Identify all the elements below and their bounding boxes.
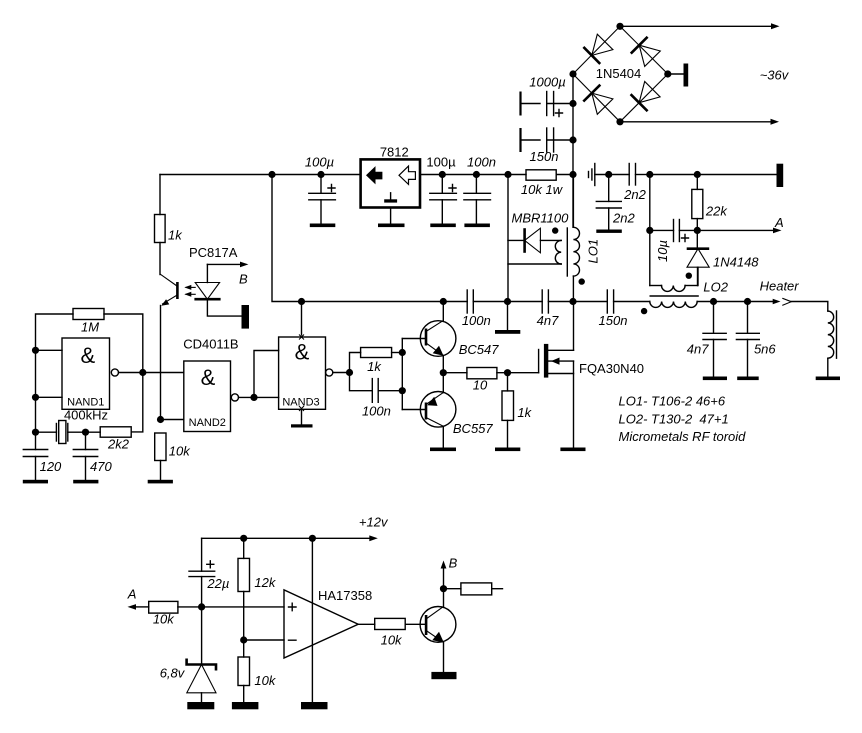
resistor 22k (692, 175, 703, 231)
ground: under 120 (23, 480, 48, 484)
capacitor 5n6 (output) (736, 302, 759, 377)
capacitor 4n7 (series on rail) (508, 290, 574, 313)
svg-text:10k: 10k (153, 612, 175, 627)
label 1k (driver) (367, 359, 382, 374)
op-amp U HA17358 (284, 590, 358, 658)
label B (bottom) (449, 556, 458, 571)
label 2n2 (series) (623, 187, 646, 202)
node: NAND1 output / feedback (139, 369, 146, 376)
inductor LO2 lower winding (series on rail) (650, 302, 774, 308)
svg-text:1N4148: 1N4148 (713, 255, 759, 270)
capacitor 1000u reservoir (521, 92, 574, 117)
svg-text:12k: 12k (254, 575, 276, 590)
label NAND1 (67, 397, 104, 409)
svg-text:Heater: Heater (760, 279, 800, 294)
svg-text:A: A (127, 587, 137, 602)
wire: line to 22k (650, 174, 777, 176)
label LO1 (rotated) (586, 239, 601, 264)
svg-text:100n: 100n (462, 313, 491, 328)
svg-text:LO1- T106-2 46+6: LO1- T106-2 46+6 (619, 394, 726, 409)
diode D2 (upper-right arm) (631, 37, 661, 67)
ground: under BC557 (430, 448, 456, 452)
node: NAND3 input tie (250, 394, 257, 401)
label 1N4148 (713, 255, 759, 270)
resistor 10k (A input) (149, 601, 284, 613)
label & (NAND3) (295, 340, 310, 365)
svg-text:NAND2: NAND2 (189, 417, 226, 429)
ground: under 470 (73, 480, 98, 484)
LO2 phase dot upper (686, 273, 692, 279)
label 10k (divider) (254, 673, 276, 688)
svg-text:NAND3: NAND3 (282, 397, 319, 409)
wire: main +36v rail y=174.5 from 1k corner to 7812 input (160, 174, 361, 176)
inductor LO2 upper winding (650, 267, 698, 291)
svg-text:1k: 1k (168, 228, 183, 243)
wire: NAND3 output (333, 372, 350, 374)
ground: under shunt 2n2 (596, 230, 622, 233)
svg-text:BC547: BC547 (459, 342, 500, 357)
resistor 12k (238, 538, 250, 640)
wire: vertical x=508 from 10k1w node down to +12 rail (507, 175, 509, 302)
svg-text:Micrometals RF toroid: Micrometals RF toroid (619, 429, 747, 444)
node: collector / B resistor (440, 585, 447, 592)
svg-text:+12v: +12v (359, 514, 389, 529)
label BC557 (453, 421, 494, 436)
svg-text:10k 1w: 10k 1w (521, 182, 564, 197)
LO1 core (566, 228, 568, 276)
node: NAND3 Vdd drop (298, 298, 305, 305)
wire: bridge arm bottom-right (620, 74, 668, 122)
label 4n7 (output) (687, 341, 709, 356)
optocoupler U PC817A phototransistor (161, 274, 178, 419)
ground: NAND3 (291, 424, 313, 427)
ground: under rail node (495, 330, 520, 334)
svg-text:CD4011B: CD4011B (183, 337, 238, 352)
crystal X1 400kHz (36, 421, 86, 444)
svg-text:4n7: 4n7 (537, 313, 559, 328)
label 100n (driver) (362, 403, 391, 418)
svg-text:A: A (774, 215, 784, 230)
node: LO1 secondary bottom / FET drain (569, 298, 576, 305)
capacitor 2n2 (series) (629, 164, 650, 186)
inductor LO1 primary winding (508, 240, 561, 264)
node: 1000u junction (569, 100, 576, 107)
node: snubber/ground junction on rail (504, 298, 511, 305)
svg-text:150n: 150n (599, 313, 628, 328)
ground: under 10k pulldown (148, 480, 173, 484)
label 1M (81, 320, 99, 335)
node: LO1 column top junction (569, 171, 576, 178)
svg-text:BC557: BC557 (453, 421, 494, 436)
wire: BC547 base lead (402, 338, 426, 340)
x-mark at NAND3 Vdd pin (299, 335, 304, 340)
node: gate divider (504, 369, 511, 376)
node: 10u right / A tap (694, 227, 701, 234)
arrow: B output up (441, 561, 447, 569)
label NAND3 (282, 397, 319, 409)
wire: NAND3 Vss pin (301, 409, 303, 424)
capacitor 150n (series on rail) (573, 290, 650, 313)
wire: 7812 output rail to 10k1w (420, 174, 526, 176)
label & (NAND2) (201, 365, 216, 390)
svg-text:400kHz: 400kHz (64, 408, 108, 423)
node: bridge right (664, 70, 671, 77)
wire: 7812 ground pin (390, 208, 392, 224)
node: input B (32, 394, 39, 401)
svg-text:100µ: 100µ (426, 155, 456, 170)
ground: under 100u cap1 (310, 224, 336, 228)
wire: vertical x=650 from rail down to LO2 (649, 175, 651, 286)
transistor Q (B driver) (420, 565, 456, 672)
svg-text:LO1: LO1 (586, 239, 601, 264)
label FQA30N40 (579, 361, 644, 376)
wire: vertical from rail down to +12 distribution rail (272, 175, 302, 302)
svg-text:LO2: LO2 (703, 280, 728, 295)
x-mark at NAND3 Vss pin (299, 406, 304, 411)
node: 100n cap junction (473, 171, 480, 178)
label 10 (473, 377, 488, 392)
label 22u (206, 576, 229, 591)
svg-text:7812: 7812 (380, 144, 409, 159)
capacitor 10u (650, 220, 698, 242)
svg-text:FQA30N40: FQA30N40 (579, 361, 644, 376)
ground: under 5n6 (737, 377, 759, 381)
wire: bridge arm left-top (573, 26, 620, 74)
resistor (B collector, unlabeled) (444, 583, 503, 595)
node: A / 22u / zener junction (198, 603, 205, 610)
wire: LED anode to B output arrow (207, 262, 248, 268)
svg-text:6,8v: 6,8v (160, 666, 186, 681)
capacitor 120 (23, 432, 47, 480)
ground: under 100u cap2 (430, 224, 456, 228)
capacitor 100n (output ceramic) (464, 175, 491, 224)
terminal bar (opto cathode return) (242, 305, 250, 329)
ground: under FET source (560, 448, 585, 452)
svg-text:10: 10 (473, 377, 488, 392)
node: opto emitter / NAND2 input (157, 416, 164, 423)
label +12v (359, 514, 389, 529)
node: 100u cap 1 junction (317, 171, 324, 178)
label 100u (305, 154, 334, 169)
ground: under divider 10k (232, 702, 259, 709)
resistor 2k2 (86, 427, 132, 437)
node: divider mid / inverting input (240, 636, 247, 643)
label HA17358 (318, 588, 372, 603)
svg-text:PC817A: PC817A (189, 245, 238, 260)
label 1k (gate) (517, 405, 532, 420)
ground: under B driver (431, 672, 456, 679)
label Heater (760, 279, 800, 294)
node: driver split (346, 369, 353, 376)
ground: under 7812 (378, 224, 405, 228)
svg-text:~36v: ~36v (760, 68, 790, 83)
transistor Q BC557 (420, 373, 456, 448)
label 150n (530, 149, 559, 164)
wire: oscillator top loop with 1M (36, 314, 74, 350)
label 100n (467, 154, 496, 169)
node: crystal right (82, 429, 89, 436)
wire: +12 rail left part (302, 301, 468, 303)
label CD4011B (183, 337, 238, 352)
label & (NAND1) (80, 343, 95, 368)
node: 4n7 output filter (710, 298, 717, 305)
wire: opamp output (358, 623, 375, 625)
wire: BC557 base lead (402, 409, 426, 411)
diode MBR1100 (508, 228, 561, 253)
inductor LO1 secondary winding (573, 175, 579, 302)
ground: under heater coil (816, 377, 840, 381)
gate U NAND2 (184, 361, 239, 432)
wire: NAND3 upper input L (254, 351, 279, 398)
LO2 core (650, 295, 698, 297)
capacitor 22u (189, 538, 215, 607)
wire: NAND1 input A (36, 349, 63, 351)
label LO2 (703, 280, 728, 295)
LO2 phase dot lower (641, 308, 647, 314)
wire: bridge arm left-bottom (573, 74, 620, 122)
wire: bridge right node stub (668, 73, 684, 75)
wire: NAND1 output to NAND2 (119, 372, 184, 374)
node: feedback divider top left (646, 171, 653, 178)
capacitor 100n (driver) (350, 373, 403, 403)
node: 22k top (694, 171, 701, 178)
svg-text:&: & (80, 343, 95, 368)
wire: opamp Vcc down through symbol to ground (311, 538, 313, 702)
label 400kHz (64, 408, 108, 423)
svg-text:1M: 1M (81, 320, 99, 335)
wire: inverting input (244, 639, 284, 641)
wire: DC+ column from bridge left node down (572, 74, 574, 227)
diode D1 (upper-left arm) (583, 34, 613, 64)
wire: AC input top with arrow (620, 23, 780, 29)
label B (239, 272, 248, 287)
node: bridge bottom (616, 118, 623, 125)
node: 100u cap 2 junction (439, 171, 446, 178)
wire: NAND2 lower input (161, 419, 184, 421)
node: rail/1k-to-+12 junction x=272 (268, 171, 275, 178)
svg-text:470: 470 (90, 459, 112, 474)
svg-text:2n2: 2n2 (623, 187, 646, 202)
wire: base bus vertical (401, 339, 403, 410)
wire: heater wire to coil (791, 302, 828, 312)
svg-text:100n: 100n (467, 154, 496, 169)
wire: AC input bottom with arrow (620, 119, 779, 125)
label 100n (rail) (462, 313, 491, 328)
label 2k2 (107, 437, 130, 452)
inductor heater coil (828, 311, 837, 377)
label A (774, 215, 784, 230)
svg-text:4n7: 4n7 (687, 341, 709, 356)
svg-text:100n: 100n (362, 403, 391, 418)
transistor Q BC547 (420, 302, 456, 373)
diode 1N4148 (687, 230, 710, 285)
LO1 phase dot secondary (579, 278, 585, 284)
svg-text:1k: 1k (517, 405, 532, 420)
svg-text:2k2: 2k2 (107, 437, 130, 452)
ground (rotated) at left end of 2n2 line (589, 164, 595, 186)
label 22k (705, 203, 728, 218)
capacitor 100n (series on rail) (467, 290, 507, 313)
wire: NAND1 input B (36, 396, 63, 398)
resistor 1k (opto feed) (155, 175, 166, 275)
svg-text:1N5404: 1N5404 (596, 66, 642, 81)
svg-text:1k: 1k (367, 359, 382, 374)
node: 10k1w left junction (504, 171, 511, 178)
resistor 10k (output) (375, 618, 426, 629)
wire: NAND2 output to NAND3 inputs (239, 396, 279, 398)
node: 150n junction (569, 136, 576, 143)
label 1k (168, 228, 183, 243)
label 150n (rail) (599, 313, 628, 328)
resistor 1M (73, 309, 104, 320)
resistor 10k (divider low) (238, 640, 250, 702)
node: bridge left (569, 70, 576, 77)
terminal bar at right end (777, 164, 784, 187)
resistor 1k (driver) (350, 348, 403, 373)
terminal bar at bridge right (DC- return) (684, 64, 689, 87)
svg-text:10k: 10k (254, 673, 276, 688)
wire: left vertical of oscillator (35, 350, 37, 432)
label 4n7 (rail) (537, 313, 559, 328)
svg-text:LO2- T130-2 47+1: LO2- T130-2 47+1 (619, 412, 729, 427)
label 5n6 (754, 341, 776, 356)
heater output arrow (773, 299, 781, 305)
wire: 10k1w right to LO1 column (556, 174, 573, 176)
node: BC547 collector (440, 298, 447, 305)
optocoupler LED (194, 264, 241, 316)
capacitor 150n (521, 128, 574, 152)
label 6,8v (160, 666, 186, 681)
label ~36v (760, 68, 790, 83)
capacitor 2n2 (shunt) (596, 175, 621, 230)
ground: under output 4n7 (703, 377, 727, 381)
resistor 1k (gate pulldown) (502, 373, 514, 448)
capacitor 4n7 (output) (703, 302, 726, 377)
label 12k (254, 575, 276, 590)
svg-text:HA17358: HA17358 (318, 588, 372, 603)
optocoupler light arrows (184, 285, 195, 297)
transistor Q FQA30N40 (539, 302, 574, 448)
svg-text:&: & (295, 340, 310, 365)
node: bridge top (616, 23, 623, 30)
node: vertical 2n2 junction (605, 171, 612, 178)
svg-text:&: & (201, 365, 216, 390)
diode D4 (lower-right arm) (631, 82, 661, 112)
label 1N5404 (596, 66, 642, 81)
node: 10u left (646, 227, 653, 234)
label 120 (40, 459, 62, 474)
svg-text:2n2: 2n2 (612, 210, 635, 225)
node: input A (32, 347, 39, 354)
svg-text:10µ: 10µ (655, 240, 670, 262)
node: opamp Vcc top (309, 535, 316, 542)
node: emitter junction (440, 369, 447, 376)
capacitor 470 (73, 432, 97, 480)
wire: input A with arrow (128, 604, 149, 610)
label NAND2 (189, 417, 226, 429)
ground: under 100n (464, 224, 490, 228)
svg-text:22k: 22k (705, 203, 728, 218)
ground: opamp (301, 702, 328, 709)
svg-text:MBR1100: MBR1100 (512, 211, 570, 226)
regulator U 7812 (361, 159, 420, 207)
svg-text:10k: 10k (169, 444, 191, 459)
svg-text:100µ: 100µ (305, 154, 334, 169)
heater connector chevron (783, 298, 792, 305)
wire: bridge arm top-right (620, 26, 668, 74)
label 7812 (380, 144, 409, 159)
wire: +12v rail bottom with arrow (202, 535, 378, 541)
resistor 10 (gate) (443, 368, 538, 379)
ground: under zener (187, 702, 214, 709)
svg-text:22µ: 22µ (206, 576, 229, 591)
note text block (619, 394, 747, 445)
ground: under gate 1k (495, 448, 520, 452)
label 10k (pulldown) (169, 444, 191, 459)
label BC547 (459, 342, 500, 357)
wire: 1M right to feedback vertical (104, 314, 143, 432)
wire: stub to ground under rail (507, 302, 509, 331)
label 1000u (529, 75, 565, 90)
node: 1k out (399, 349, 406, 356)
gate U NAND1 (62, 338, 119, 409)
svg-text:B: B (449, 556, 458, 571)
resistor 10k 1w (526, 170, 556, 180)
svg-text:B: B (239, 272, 248, 287)
node: 100n out (399, 387, 406, 394)
wire: NAND3 Vdd from +12 rail (301, 302, 303, 336)
node: crystal left (32, 429, 39, 436)
label 2n2 (shunt) (612, 210, 635, 225)
label 100u (426, 155, 456, 170)
wire: rotated-ground to node (595, 174, 629, 176)
node: 5n6 output filter (744, 298, 751, 305)
label A (bottom) (127, 587, 137, 602)
label 470 (90, 459, 112, 474)
LO1 phase dot primary (552, 227, 558, 233)
label MBR1100 (512, 211, 570, 226)
node: 12k top (240, 535, 247, 542)
label 10k 1w (521, 182, 564, 197)
svg-text:1000µ: 1000µ (529, 75, 565, 90)
label 10u (rotated) (655, 240, 670, 262)
resistor 10k (opto pulldown) (155, 433, 166, 480)
label 10k (A input) (153, 612, 175, 627)
diode D3 (lower-left arm) (583, 85, 613, 115)
svg-text:150n: 150n (530, 149, 559, 164)
label 10k (output) (381, 632, 403, 647)
svg-text:5n6: 5n6 (754, 341, 776, 356)
label PC817A (189, 245, 238, 260)
wire: output A with arrow (697, 228, 781, 234)
zener diode 6,8v (187, 607, 216, 702)
svg-text:120: 120 (40, 459, 62, 474)
gate U NAND3 (279, 337, 333, 409)
capacitor 100u (output electrolytic) (430, 175, 457, 224)
capacitor 100u (input electrolytic) (309, 175, 336, 224)
svg-text:10k: 10k (381, 632, 403, 647)
